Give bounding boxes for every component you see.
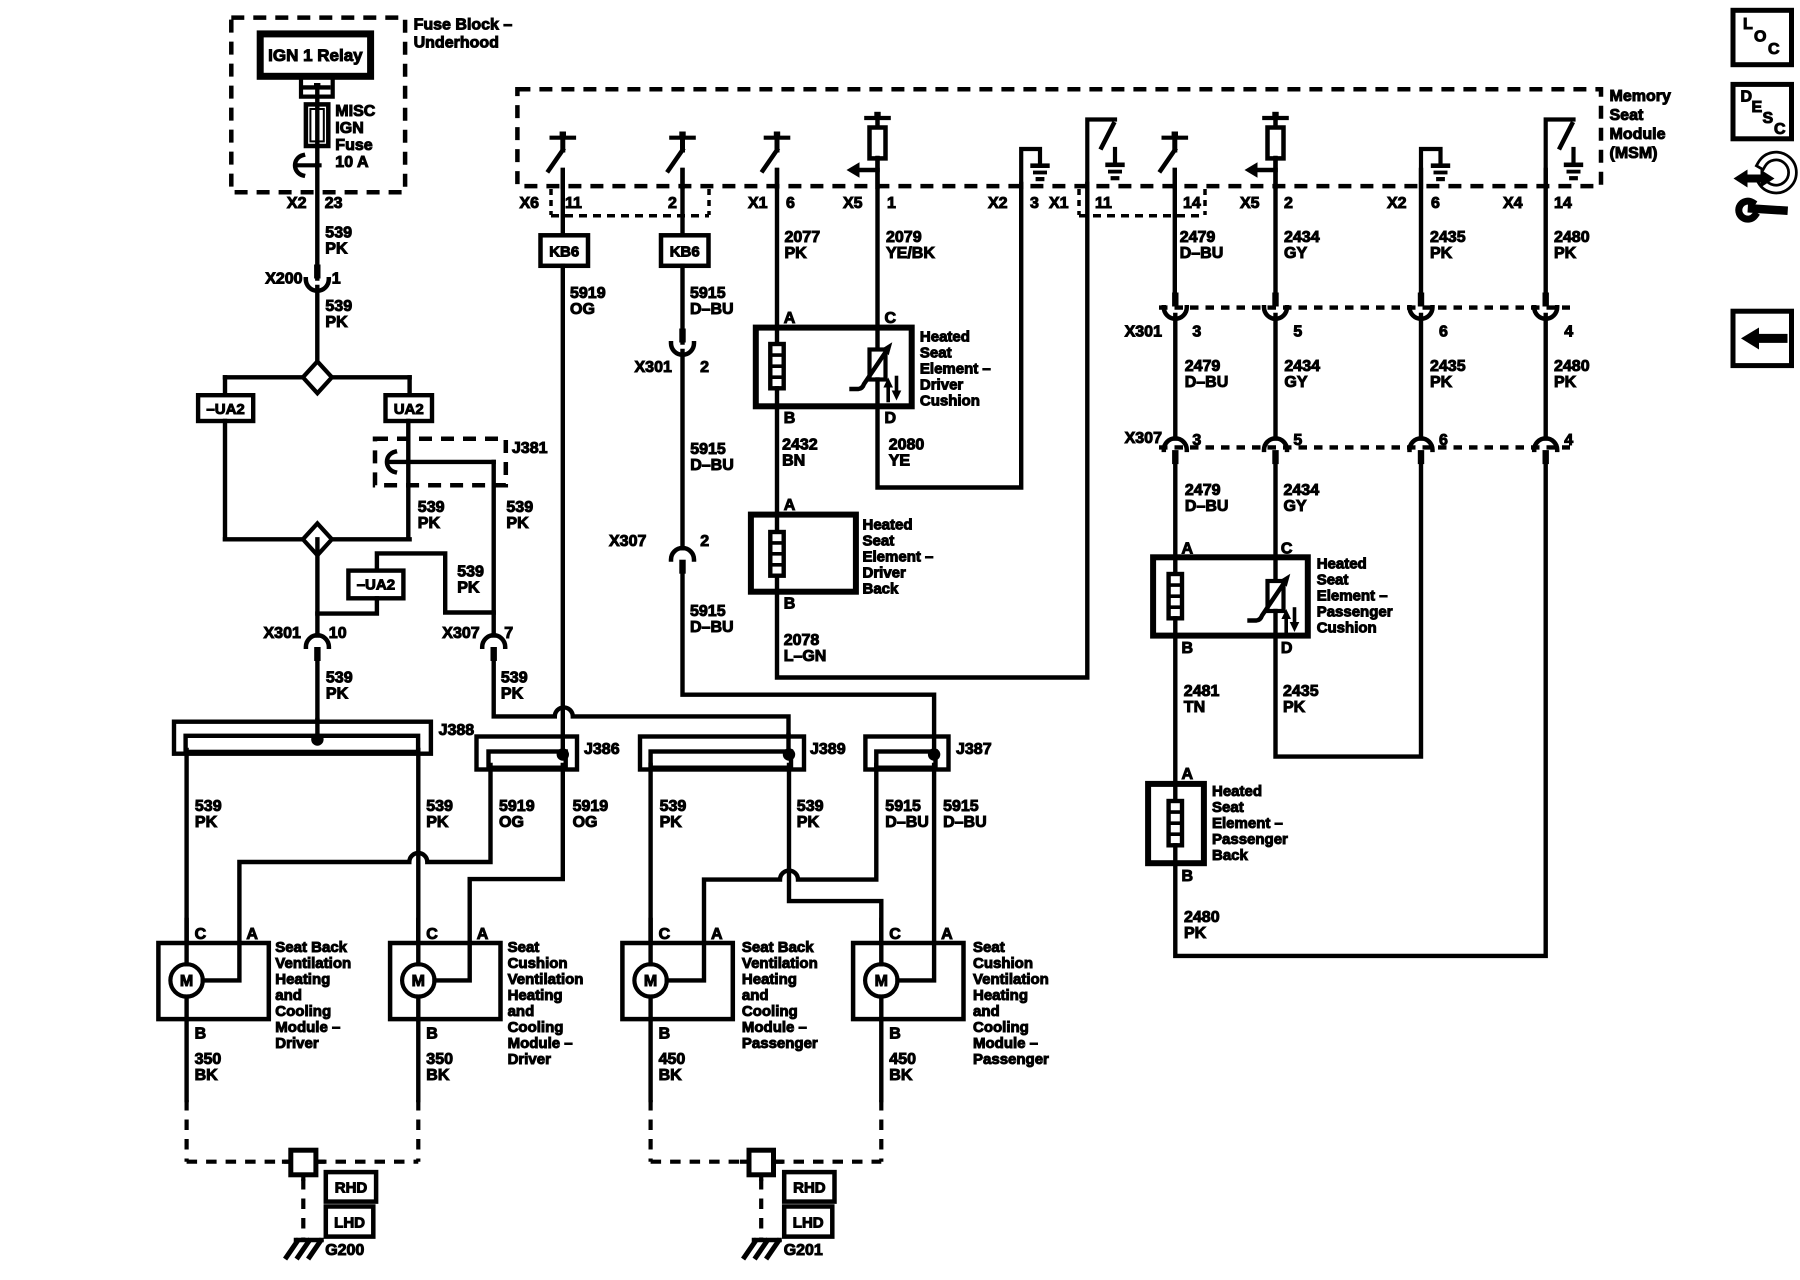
svg-text:Module –: Module – — [275, 1019, 340, 1036]
svg-text:Passenger: Passenger — [742, 1035, 818, 1052]
wire 539 PK X307-7 to J389 — [494, 661, 789, 753]
svg-text:YE: YE — [889, 453, 911, 470]
svg-text:BN: BN — [782, 453, 805, 470]
svg-text:IGN: IGN — [335, 120, 363, 137]
wire 2080 YE element D to MSM X2-3 — [878, 184, 1022, 488]
svg-text:X1: X1 — [748, 195, 768, 212]
ground G201 chassis symbol — [754, 1238, 780, 1243]
svg-text:Cushion: Cushion — [508, 955, 568, 972]
MSM switch output pin 14 — [1164, 136, 1186, 140]
svg-text:PK: PK — [506, 515, 529, 532]
svg-text:Driver: Driver — [863, 565, 907, 582]
icon box back arrow — [1733, 311, 1792, 365]
svg-text:Cushion: Cushion — [973, 955, 1033, 972]
wire 5919 OG J386 left output to module 1 pin A — [239, 765, 490, 943]
wire MSM pin 2 to KB6 second — [680, 170, 684, 235]
option box RHD near G200 — [326, 1172, 376, 1202]
connector X307 pin 2 — [671, 548, 694, 560]
svg-text:BK: BK — [889, 1067, 913, 1084]
svg-text:OG: OG — [573, 814, 598, 831]
connector X307 pin 3 — [1164, 438, 1187, 450]
svg-text:539: 539 — [506, 499, 533, 516]
MSM internal ground X2-3 — [1021, 149, 1040, 187]
wire J381 branch down to X307 pin 7 — [492, 613, 496, 636]
svg-text:23: 23 — [325, 195, 343, 212]
svg-text:Fuse Block –: Fuse Block – — [414, 17, 513, 34]
svg-text:YE/BK: YE/BK — [886, 245, 935, 262]
svg-text:C: C — [1768, 41, 1780, 58]
svg-text:539: 539 — [797, 798, 824, 815]
svg-text:X4: X4 — [1503, 195, 1523, 212]
svg-text:5915: 5915 — [690, 285, 726, 302]
svg-text:X301: X301 — [264, 625, 301, 642]
wire 2078 L-GN driver back B to MSM X1-11 — [777, 184, 1087, 678]
arrow marker X5-1 — [859, 168, 878, 173]
svg-text:450: 450 — [889, 1051, 916, 1068]
svg-text:KB6: KB6 — [670, 244, 700, 261]
svg-text:10: 10 — [329, 625, 347, 642]
svg-text:2435: 2435 — [1430, 358, 1466, 375]
svg-text:L: L — [1743, 16, 1753, 33]
svg-text:M: M — [875, 973, 888, 990]
svg-text:539: 539 — [326, 670, 353, 687]
svg-text:PK: PK — [1430, 245, 1453, 262]
svg-text:X2: X2 — [287, 195, 307, 212]
svg-text:Driver: Driver — [920, 377, 964, 394]
svg-text:Element –: Element – — [1317, 588, 1388, 605]
svg-text:X301: X301 — [1125, 324, 1162, 341]
wire branch horizontal at splice 1 — [225, 375, 410, 379]
svg-text:KB6: KB6 — [549, 244, 579, 261]
svg-text:A: A — [1182, 766, 1194, 783]
svg-text:C: C — [659, 926, 671, 943]
svg-text:4: 4 — [1564, 324, 1573, 341]
svg-text:PK: PK — [195, 814, 218, 831]
svg-text:2435: 2435 — [1430, 229, 1466, 246]
wire UA2 through J381 to lower splice — [406, 421, 410, 539]
svg-text:Seat: Seat — [920, 345, 952, 362]
svg-text:D–BU: D–BU — [1185, 374, 1229, 391]
svg-text:1: 1 — [887, 195, 896, 212]
svg-text:D: D — [1281, 640, 1293, 657]
svg-text:–UA2: –UA2 — [357, 577, 395, 594]
connector X301 pin 3 — [1172, 293, 1178, 307]
svg-text:539: 539 — [501, 670, 528, 687]
svg-text:and: and — [275, 987, 302, 1004]
connector X301 pin 5 — [1272, 293, 1278, 307]
splice diamond 2 — [303, 523, 332, 555]
svg-text:PK: PK — [326, 686, 349, 703]
svg-text:X200: X200 — [265, 271, 302, 288]
svg-text:11: 11 — [1095, 195, 1112, 212]
svg-text:PK: PK — [418, 515, 441, 532]
MSM switch output pin 2 — [671, 136, 693, 140]
svg-text:539: 539 — [660, 798, 687, 815]
svg-text:2077: 2077 — [785, 229, 821, 246]
svg-text:Seat: Seat — [973, 939, 1005, 956]
svg-text:G201: G201 — [784, 1242, 823, 1259]
connector X307 pin 7 — [482, 635, 505, 647]
svg-text:and: and — [742, 987, 769, 1004]
svg-text:PK: PK — [797, 814, 820, 831]
svg-text:PK: PK — [1430, 374, 1453, 391]
svg-text:Heating: Heating — [275, 971, 330, 988]
connector X301 pin 2 — [679, 329, 685, 343]
wire relay to fuse — [315, 86, 319, 105]
svg-text:539: 539 — [195, 798, 222, 815]
svg-text:J381: J381 — [512, 440, 548, 457]
wire 2479 D-BU MSM pin 14 down — [1173, 170, 1177, 293]
svg-text:PK: PK — [1554, 374, 1577, 391]
svg-text:Underhood: Underhood — [414, 35, 499, 52]
splice pack J386 — [477, 737, 578, 770]
dashed ground bus G200 — [187, 1160, 291, 1164]
svg-text:D: D — [885, 410, 897, 427]
option box -UA2 left — [198, 395, 253, 421]
svg-text:5919: 5919 — [573, 798, 609, 815]
wire 2435 PK X301-6 to X307-6 — [1419, 315, 1423, 439]
svg-text:B: B — [195, 1026, 207, 1043]
svg-text:A: A — [784, 310, 796, 327]
module seat back ventilation heating cooling driver — [158, 943, 268, 1019]
svg-text:J389: J389 — [810, 741, 846, 758]
svg-text:D–BU: D–BU — [885, 814, 929, 831]
svg-text:and: and — [973, 1003, 1000, 1020]
svg-text:PK: PK — [457, 580, 480, 597]
svg-text:2434: 2434 — [1284, 482, 1320, 499]
connector X307 pin 5 — [1264, 438, 1287, 450]
svg-text:LHD: LHD — [793, 1215, 824, 1232]
wire 350 BK module 2 pin B — [416, 1019, 420, 1100]
svg-text:D: D — [1741, 89, 1753, 106]
wire 2481 TN passenger cushion B to passenger back A — [1173, 636, 1177, 784]
dashed ground bus G201 — [651, 1160, 749, 1164]
dashed ground wire module 3 — [648, 1100, 652, 1162]
svg-text:Driver: Driver — [275, 1035, 319, 1052]
svg-text:X307: X307 — [609, 533, 646, 550]
svg-text:5915: 5915 — [690, 441, 726, 458]
wire 539 PK J381 down — [377, 462, 494, 613]
svg-text:Module: Module — [1610, 126, 1666, 143]
svg-text:6: 6 — [786, 195, 795, 212]
connector X301 pin 6 — [1418, 293, 1424, 307]
svg-text:7: 7 — [504, 625, 513, 642]
svg-text:Driver: Driver — [508, 1051, 552, 1068]
wire splice 2 down to X301 pin 10 — [315, 539, 319, 635]
svg-text:PK: PK — [1554, 245, 1577, 262]
inline connector box G201 branch — [742, 1160, 749, 1164]
svg-text:Heating: Heating — [508, 987, 563, 1004]
svg-text:Seat: Seat — [1317, 572, 1349, 589]
element resistor passenger back — [1173, 784, 1177, 801]
svg-text:Cooling: Cooling — [973, 1019, 1029, 1036]
icon box LOC — [1733, 10, 1792, 64]
svg-text:C: C — [426, 926, 438, 943]
svg-text:2: 2 — [700, 359, 709, 376]
svg-text:D–BU: D–BU — [1180, 245, 1224, 262]
option box -UA2 lower — [348, 571, 403, 599]
svg-text:Cooling: Cooling — [508, 1019, 564, 1036]
option box LHD near G201 — [784, 1207, 832, 1237]
svg-text:D–BU: D–BU — [1185, 498, 1229, 515]
svg-text:Cooling: Cooling — [275, 1003, 331, 1020]
svg-text:A: A — [711, 926, 723, 943]
svg-text:X307: X307 — [1125, 430, 1162, 447]
svg-text:C: C — [885, 310, 897, 327]
svg-text:5: 5 — [1293, 324, 1302, 341]
wire 5919 OG KB6 to J386 — [561, 266, 565, 753]
svg-text:2434: 2434 — [1284, 229, 1320, 246]
svg-text:450: 450 — [659, 1051, 686, 1068]
svg-text:2: 2 — [1284, 195, 1293, 212]
heated seat element passenger back box — [1148, 784, 1204, 863]
svg-text:RHD: RHD — [335, 1180, 368, 1197]
svg-text:B: B — [659, 1026, 671, 1043]
svg-text:Memory: Memory — [1610, 88, 1671, 105]
wire 2077 PK MSM X1-6 to element A — [775, 170, 779, 328]
wire MSM X6-11 to KB6 — [561, 170, 565, 235]
svg-text:Module –: Module – — [742, 1019, 807, 1036]
icon diagnostic arrows and wrench — [1762, 156, 1793, 189]
svg-text:Ventilation: Ventilation — [742, 955, 818, 972]
wire 5919 OG J386 right output to module 2 pin A — [470, 765, 563, 943]
splice pack J389 — [640, 737, 804, 770]
svg-text:5915: 5915 — [690, 603, 726, 620]
svg-text:M: M — [644, 973, 657, 990]
svg-text:2480: 2480 — [1554, 229, 1590, 246]
MSM switch output X1-6 — [766, 136, 788, 140]
wire 2434 GY MSM X5-2 down — [1273, 158, 1277, 293]
svg-text:LHD: LHD — [334, 1215, 365, 1232]
svg-text:6: 6 — [1431, 195, 1440, 212]
svg-text:X6: X6 — [520, 195, 540, 212]
svg-text:1: 1 — [332, 271, 341, 288]
wire 539 PK J388 left output to module C — [184, 750, 188, 943]
dashed ground wire module 4 — [879, 1100, 883, 1162]
icon box DESC — [1733, 84, 1792, 138]
element resistor driver back — [775, 515, 779, 532]
svg-text:350: 350 — [426, 1051, 453, 1068]
svg-text:D–BU: D–BU — [690, 619, 734, 636]
wire -UA2 lower to X301-10 wire — [317, 598, 377, 613]
svg-text:PK: PK — [325, 314, 348, 331]
svg-text:Cooling: Cooling — [742, 1003, 798, 1020]
svg-text:G200: G200 — [325, 1242, 364, 1259]
svg-text:5915: 5915 — [885, 798, 921, 815]
svg-text:Heated: Heated — [863, 517, 913, 534]
option box LHD near G200 — [326, 1207, 374, 1237]
svg-text:GY: GY — [1284, 245, 1307, 262]
svg-text:C: C — [1774, 121, 1786, 138]
svg-text:D–BU: D–BU — [943, 814, 987, 831]
splice J381 dashed box — [375, 439, 506, 486]
svg-text:4: 4 — [1564, 432, 1573, 449]
svg-text:X2: X2 — [1387, 195, 1407, 212]
svg-text:5919: 5919 — [499, 798, 535, 815]
fuse KB6 second — [661, 235, 709, 265]
svg-text:5919: 5919 — [570, 285, 606, 302]
wire 2480 PK X301-4 to X307-4 — [1543, 315, 1547, 439]
svg-text:PK: PK — [426, 814, 449, 831]
element thermistor passenger cushion — [1273, 557, 1277, 581]
svg-text:–UA2: –UA2 — [206, 401, 244, 418]
wire 539 PK J389 left output to module 3 pin C — [648, 765, 652, 943]
svg-text:Element –: Element – — [920, 361, 991, 378]
svg-text:5: 5 — [1293, 432, 1302, 449]
svg-text:3: 3 — [1030, 195, 1039, 212]
svg-text:Ventilation: Ventilation — [275, 955, 351, 972]
svg-text:X5: X5 — [843, 195, 863, 212]
svg-text:6: 6 — [1439, 324, 1448, 341]
svg-text:3: 3 — [1192, 432, 1201, 449]
svg-text:B: B — [784, 596, 796, 613]
MSM switch output X6-11 — [552, 136, 574, 140]
svg-text:Heated: Heated — [1212, 783, 1262, 800]
connector X301 pin 4 — [1543, 293, 1549, 307]
wire 2079 YE/BK MSM X5-1 to element C — [875, 158, 879, 328]
svg-text:UA2: UA2 — [394, 401, 424, 418]
svg-text:A: A — [784, 497, 796, 514]
relay contact bracket — [301, 81, 333, 97]
svg-text:BK: BK — [426, 1067, 450, 1084]
wire 2434 GY X301-5 to X307-5 — [1273, 315, 1277, 439]
svg-text:14: 14 — [1554, 195, 1572, 212]
svg-text:IGN 1 Relay: IGN 1 Relay — [268, 46, 363, 65]
wire 2435 PK passenger cushion D joins X307-6 wire — [1276, 464, 1422, 757]
wire 2480 PK MSM X4-14 down — [1543, 170, 1547, 293]
svg-text:Cushion: Cushion — [920, 393, 980, 410]
svg-text:Passenger: Passenger — [973, 1051, 1049, 1068]
module seat back ventilation heating cooling passenger — [622, 943, 732, 1019]
svg-text:2078: 2078 — [784, 632, 820, 649]
module seat cushion ventilation heating cooling driver — [390, 943, 500, 1019]
svg-text:PK: PK — [1283, 699, 1306, 716]
wire 2479 D-BU X301-3 to X307-3 — [1173, 315, 1177, 439]
svg-text:Passenger: Passenger — [1317, 604, 1393, 621]
svg-text:Ventilation: Ventilation — [973, 971, 1049, 988]
svg-text:S: S — [1763, 110, 1774, 127]
wire lower horizontal to splice diamond 2 — [225, 537, 410, 541]
svg-text:C: C — [195, 926, 207, 943]
wire left branch down to -UA2 — [223, 377, 227, 396]
wire 2480 PK passenger back B joins X307-4 wire — [1175, 464, 1545, 956]
wire 5915 D-BU X307-2 to J387 — [683, 574, 935, 754]
svg-text:B: B — [784, 410, 796, 427]
wire right branch down to UA2 — [407, 377, 411, 396]
svg-text:2079: 2079 — [886, 229, 922, 246]
svg-text:Element –: Element – — [1212, 815, 1283, 832]
svg-text:Back: Back — [1212, 847, 1249, 864]
svg-text:B: B — [889, 1026, 901, 1043]
ground G200 chassis symbol — [296, 1238, 322, 1243]
svg-text:A: A — [246, 926, 258, 943]
connector X301 pin 10 — [306, 635, 329, 647]
svg-text:A: A — [477, 926, 489, 943]
heated seat element driver back box — [751, 515, 856, 592]
svg-text:6: 6 — [1439, 432, 1448, 449]
fuse KB6 first — [541, 235, 589, 265]
dashed ground wire module 2 — [416, 1100, 420, 1162]
svg-text:GY: GY — [1284, 374, 1307, 391]
svg-text:Back: Back — [863, 581, 900, 598]
MSM resistor output X5-1 — [866, 116, 888, 120]
svg-text:14: 14 — [1183, 195, 1201, 212]
svg-text:O: O — [1754, 29, 1766, 46]
svg-text:Cushion: Cushion — [1317, 620, 1377, 637]
svg-text:BK: BK — [659, 1067, 683, 1084]
wire -UA2 to lower splice — [223, 421, 227, 539]
svg-text:Heated: Heated — [1317, 556, 1367, 573]
MSM switch to ground X1-11 — [1087, 120, 1115, 188]
svg-text:OG: OG — [499, 814, 524, 831]
svg-text:539: 539 — [325, 298, 352, 315]
svg-text:2480: 2480 — [1554, 358, 1590, 375]
heated seat element driver cushion box — [756, 328, 912, 407]
svg-text:Seat: Seat — [1212, 799, 1244, 816]
svg-text:M: M — [412, 973, 425, 990]
wire 539 PK X200 to splice diamond — [315, 287, 319, 362]
svg-text:Seat: Seat — [508, 939, 540, 956]
svg-text:(MSM): (MSM) — [1610, 145, 1658, 162]
svg-text:Seat Back: Seat Back — [742, 939, 814, 956]
svg-text:2479: 2479 — [1185, 482, 1221, 499]
element resistor passenger cushion — [1173, 557, 1177, 574]
svg-text:X5: X5 — [1240, 195, 1260, 212]
wire 539 PK J389 right output to module 4 pin C — [789, 765, 881, 943]
element thermistor driver cushion — [875, 328, 879, 350]
svg-text:X301: X301 — [635, 359, 672, 376]
option box RHD near G201 — [784, 1172, 834, 1202]
dashed wire to G200 — [301, 1179, 305, 1238]
svg-text:RHD: RHD — [793, 1180, 826, 1197]
wire 5915 D-BU KB6 to X301-2 — [680, 266, 684, 343]
svg-text:J388: J388 — [439, 722, 475, 739]
heated seat element passenger cushion box — [1153, 557, 1308, 635]
svg-text:539: 539 — [418, 499, 445, 516]
svg-text:PK: PK — [325, 240, 348, 257]
svg-text:2434: 2434 — [1284, 358, 1320, 375]
dashed wire to G201 — [759, 1179, 763, 1238]
svg-text:Seat: Seat — [1610, 107, 1644, 124]
svg-text:Module –: Module – — [973, 1035, 1038, 1052]
svg-text:2435: 2435 — [1283, 683, 1319, 700]
svg-text:PK: PK — [660, 814, 683, 831]
svg-text:2479: 2479 — [1180, 229, 1216, 246]
wire 539 PK fuse block to X200 — [315, 165, 319, 279]
fuse F MISC IGN Fuse 10 A — [306, 104, 328, 146]
J381 tap contact and wire 539 PK to the right — [389, 460, 494, 464]
svg-text:J387: J387 — [956, 741, 992, 758]
wire 5915 D-BU J387 right output to module 4 pin A — [932, 765, 936, 943]
svg-text:A: A — [941, 926, 953, 943]
svg-text:539: 539 — [325, 224, 352, 241]
svg-text:TN: TN — [1184, 699, 1205, 716]
dashed ground wire module 1 — [185, 1100, 189, 1162]
svg-text:X307: X307 — [442, 625, 479, 642]
svg-text:Element –: Element – — [863, 549, 934, 566]
svg-text:GY: GY — [1284, 498, 1307, 515]
wire 5915 D-BU J387 left output to module 3 pin A — [704, 765, 876, 943]
svg-text:OG: OG — [570, 301, 595, 318]
wire 539 PK X301-10 to J388 — [315, 661, 319, 740]
inline connector box G200 branch — [284, 1160, 291, 1164]
svg-text:539: 539 — [426, 798, 453, 815]
svg-text:D–BU: D–BU — [690, 301, 734, 318]
svg-text:2480: 2480 — [1184, 909, 1220, 926]
svg-text:MISC: MISC — [335, 103, 375, 120]
svg-text:L–GN: L–GN — [784, 648, 827, 665]
svg-text:and: and — [508, 1003, 535, 1020]
